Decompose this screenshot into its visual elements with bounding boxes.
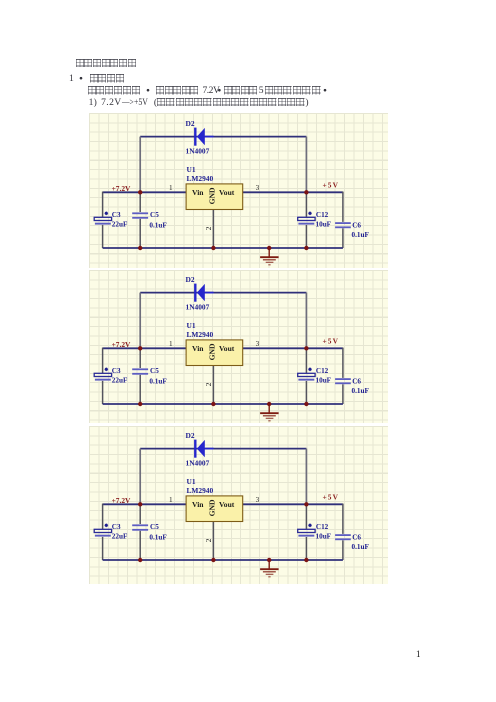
ground symbol (260, 404, 279, 421)
svg-text:D2: D2 (186, 431, 195, 440)
wire main rail left (103, 503, 187, 505)
wire left border upper (102, 348, 104, 373)
svg-text:+5V: +5V (323, 337, 340, 346)
svg-text:1N4007: 1N4007 (186, 303, 210, 312)
capacitor C5 0.1uF (132, 212, 148, 218)
wire left border lower (102, 381, 104, 404)
svg-text:0.1uF: 0.1uF (352, 543, 370, 551)
svg-text:1N4007: 1N4007 (186, 459, 210, 468)
wire bottom rail (103, 559, 343, 561)
diode D2 1N4007 (194, 284, 214, 302)
svg-text:10uF: 10uF (316, 377, 332, 385)
svg-text:1: 1 (169, 340, 173, 348)
svg-text:Vout: Vout (219, 500, 235, 509)
svg-text:0.1uF: 0.1uF (149, 221, 167, 229)
wire top rail (140, 448, 306, 450)
wire main rail right (243, 503, 343, 505)
svg-text:Vin: Vin (192, 500, 204, 509)
svg-text:Vin: Vin (192, 188, 204, 197)
body line 4 (89, 98, 312, 108)
junction bottom pin2 (211, 402, 215, 406)
capacitor C6 0.1uF (335, 222, 351, 228)
wire main rail right (243, 191, 343, 193)
svg-text:U1: U1 (187, 165, 196, 174)
junction bottom C12 (304, 402, 308, 406)
svg-text:GND: GND (207, 343, 216, 360)
body line 3 (88, 86, 329, 96)
wire left riser (139, 449, 141, 505)
svg-text:C6: C6 (352, 534, 361, 542)
capacitor C6 0.1uF (335, 378, 351, 384)
svg-text:2: 2 (204, 226, 213, 230)
capacitor C6 0.1uF (335, 534, 351, 540)
diode D2 1N4007 (194, 128, 214, 146)
svg-text:22uF: 22uF (112, 376, 128, 384)
wire C5 stub upper (139, 192, 141, 212)
svg-text:0.1uF: 0.1uF (352, 387, 370, 395)
wire right border upper (342, 348, 344, 378)
svg-text:1N4007: 1N4007 (186, 147, 210, 156)
svg-text:U1: U1 (187, 477, 196, 486)
junction main-right (304, 502, 308, 506)
svg-text:C6: C6 (352, 222, 361, 230)
wire top rail (140, 292, 306, 294)
capacitor C3 22uF electrolytic (94, 368, 111, 381)
svg-text:2: 2 (204, 382, 213, 386)
svg-text:0.1uF: 0.1uF (149, 377, 167, 385)
svg-text:3: 3 (256, 496, 260, 504)
wire right border upper (342, 192, 344, 222)
svg-text:22uF: 22uF (112, 532, 128, 540)
ground symbol (260, 248, 279, 265)
junction main-left (138, 190, 142, 194)
wire left riser (139, 293, 141, 349)
svg-text:0.1uF: 0.1uF (352, 231, 370, 239)
ground symbol (260, 560, 279, 577)
wire left border upper (102, 192, 104, 217)
svg-text:+7.2V: +7.2V (112, 496, 131, 505)
grid panel 3 (89, 426, 388, 584)
svg-text:U1: U1 (187, 321, 196, 330)
wire right border lower (342, 228, 344, 248)
capacitor C3 22uF electrolytic (94, 524, 111, 537)
grid panel 2 (89, 270, 388, 423)
junction bottom C12 (304, 246, 308, 250)
svg-text:LM2940: LM2940 (187, 486, 214, 495)
wire right border lower (342, 384, 344, 404)
svg-text:22uF: 22uF (112, 220, 128, 228)
svg-text:C5: C5 (150, 211, 159, 219)
svg-text:+7.2V: +7.2V (112, 184, 131, 193)
svg-text:LM2940: LM2940 (187, 330, 214, 339)
wire left border lower (102, 537, 104, 560)
svg-text:C5: C5 (150, 523, 159, 531)
junction bottom gnd (267, 246, 271, 250)
svg-text:Vout: Vout (219, 344, 235, 353)
wire C5 stub lower (139, 531, 141, 560)
junction bottom pin2 (211, 558, 215, 562)
junction bottom gnd (267, 402, 271, 406)
junction main-right (304, 190, 308, 194)
wire C12 stub lower (305, 225, 307, 248)
wire C5 stub lower (139, 375, 141, 404)
svg-text:3: 3 (256, 184, 260, 192)
svg-text:Vin: Vin (192, 344, 204, 353)
op-amp U1 LM2940 regulator box (186, 496, 243, 522)
wire C12 stub lower (305, 537, 307, 560)
wire pin2 stub (212, 210, 214, 249)
wire right border upper (342, 504, 344, 534)
svg-text:C5: C5 (150, 367, 159, 375)
junction main-left (138, 502, 142, 506)
wire bottom rail (103, 403, 343, 405)
wire C12 stub upper (305, 192, 307, 217)
wire left riser (139, 137, 141, 193)
svg-text:C12: C12 (316, 211, 329, 219)
svg-text:2: 2 (204, 538, 213, 542)
svg-text:C6: C6 (352, 378, 361, 386)
wire C12 stub lower (305, 381, 307, 404)
svg-text:1: 1 (169, 496, 173, 504)
capacitor C3 22uF electrolytic (94, 212, 111, 225)
junction bottom C5 (138, 558, 142, 562)
document title line (76, 59, 137, 69)
wire right riser (305, 137, 307, 193)
svg-text:+5V: +5V (323, 493, 340, 502)
svg-text:C12: C12 (316, 367, 329, 375)
svg-text:C12: C12 (316, 523, 329, 531)
wire left border lower (102, 225, 104, 248)
diode D2 1N4007 (194, 440, 214, 458)
svg-text:10uF: 10uF (316, 221, 332, 229)
svg-text:+7.2V: +7.2V (112, 340, 131, 349)
svg-text:C3: C3 (112, 367, 121, 375)
op-amp U1 LM2940 regulator box (186, 340, 243, 366)
wire right border lower (342, 540, 344, 560)
svg-text:LM2940: LM2940 (187, 174, 214, 183)
capacitor C5 0.1uF (132, 524, 148, 530)
wire right riser (305, 293, 307, 349)
junction main-right (304, 346, 308, 350)
junction bottom C5 (138, 402, 142, 406)
wire main rail right (243, 347, 343, 349)
wire C5 stub lower (139, 219, 141, 248)
wire C12 stub upper (305, 504, 307, 529)
svg-text:C3: C3 (112, 211, 121, 219)
junction bottom gnd (267, 558, 271, 562)
junction main-left (138, 346, 142, 350)
svg-text:+5V: +5V (323, 181, 340, 190)
junction bottom pin2 (211, 246, 215, 250)
svg-text:0.1uF: 0.1uF (149, 533, 167, 541)
wire right riser (305, 449, 307, 505)
svg-text:GND: GND (207, 187, 216, 204)
svg-text:C3: C3 (112, 523, 121, 531)
svg-text:D2: D2 (186, 275, 195, 284)
wire left border upper (102, 504, 104, 529)
wire main rail left (103, 191, 187, 193)
svg-text:Vout: Vout (219, 188, 235, 197)
wire pin2 stub (212, 522, 214, 561)
svg-text:GND: GND (207, 499, 216, 516)
svg-text:D2: D2 (186, 119, 195, 128)
junction bottom C12 (304, 558, 308, 562)
capacitor C12 10uF electrolytic (298, 368, 315, 381)
op-amp U1 LM2940 regulator box (186, 184, 243, 210)
grid panel 1 (89, 113, 388, 268)
wire top rail (140, 136, 306, 138)
wire C5 stub upper (139, 504, 141, 524)
page number (416, 650, 421, 660)
capacitor C12 10uF electrolytic (298, 212, 315, 225)
wire main rail left (103, 347, 187, 349)
svg-text:3: 3 (256, 340, 260, 348)
wire C12 stub upper (305, 348, 307, 373)
wire bottom rail (103, 247, 343, 249)
wire pin2 stub (212, 366, 214, 405)
capacitor C12 10uF electrolytic (298, 524, 315, 537)
heading line 1、电源模块 (69, 74, 125, 84)
wire C5 stub upper (139, 348, 141, 368)
svg-text:10uF: 10uF (316, 533, 332, 541)
junction bottom C5 (138, 246, 142, 250)
svg-text:1: 1 (169, 184, 173, 192)
capacitor C5 0.1uF (132, 368, 148, 374)
